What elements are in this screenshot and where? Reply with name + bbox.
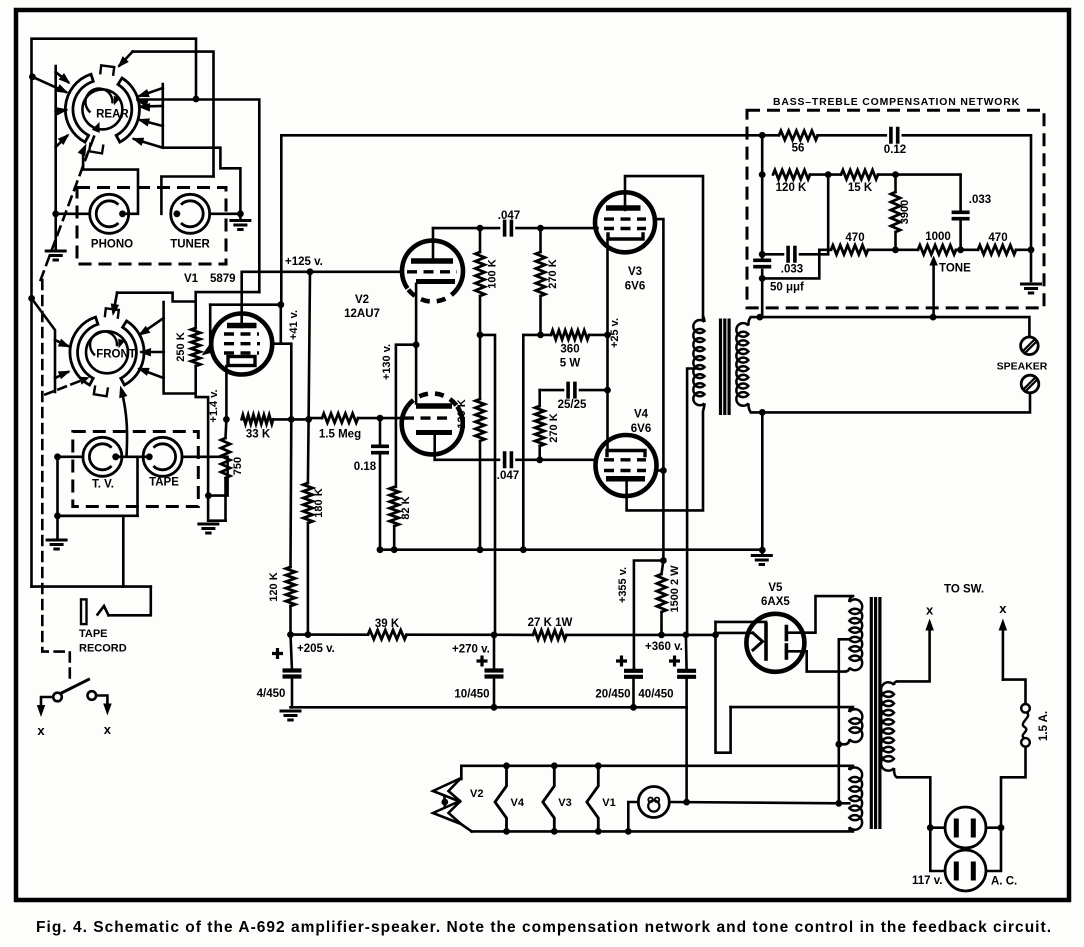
node junction: [305, 631, 312, 638]
svg-text:+355 v.: +355 v.: [617, 567, 629, 603]
wire fuse branch top: [1003, 680, 1026, 704]
svg-text:5 W: 5 W: [560, 358, 581, 370]
wire 0.18 leads: [379, 418, 382, 446]
wire 6.3V center tap: [839, 802, 850, 805]
node junction: [551, 762, 558, 769]
wire 6.3V top lead (heater bus A): [461, 766, 853, 779]
rotary switch REAR contact arc left: [65, 74, 93, 142]
resistor 470 left: [831, 245, 868, 254]
jack TAPE: [143, 437, 182, 476]
wire feedback riser: [279, 305, 282, 344]
resistor 3900: [891, 192, 900, 232]
node junction: [604, 332, 611, 339]
wire V2 lower cathode lead: [433, 436, 436, 460]
wire upper plug right: [986, 826, 1001, 829]
svg-text:39 K: 39 K: [375, 618, 400, 630]
svg-text:V4: V4: [511, 797, 525, 809]
svg-text:6AX5: 6AX5: [761, 596, 790, 608]
node junction: [277, 301, 284, 308]
ground: [45, 251, 67, 260]
dashed box compensation network: [747, 110, 1044, 308]
jack TAPE RECORD sleeve: [81, 599, 87, 624]
node junction: [957, 246, 964, 253]
tube V3 plate: [606, 205, 641, 211]
dashed box TV TAPE: [73, 432, 199, 507]
wire 360 to cathode rail: [589, 334, 608, 337]
tube V2 lower envelope: [402, 407, 463, 455]
svg-text:33 K: 33 K: [246, 429, 271, 441]
resistor 1.5Meg: [322, 414, 358, 423]
tube V5 plate 1: [785, 627, 789, 640]
resistor 82K: [390, 487, 399, 526]
node junction: [237, 210, 244, 217]
wire 360 row: [523, 334, 551, 337]
tube V4 grid rows: [604, 458, 646, 461]
node junction: [54, 512, 61, 519]
svg-text:.047: .047: [498, 210, 520, 222]
wire feedback top bus: [281, 135, 762, 304]
wire upper plug left: [930, 826, 945, 829]
wire comp left rail: [761, 135, 764, 257]
svg-text:+360 v.: +360 v.: [645, 641, 683, 653]
arrow FRONT top: [114, 293, 118, 312]
capacitor 0.18: [371, 446, 389, 452]
wire pilot right: [669, 802, 839, 803]
wire V5 plate1 to HV top: [786, 596, 853, 633]
svg-text:V1: V1: [602, 797, 615, 809]
tube V2 upper envelope: [402, 241, 463, 289]
ground: [1020, 284, 1042, 293]
ground: [751, 556, 773, 565]
wire fuse to plugs right: [987, 747, 1026, 871]
node junction: [112, 453, 119, 460]
svg-text:V5: V5: [768, 582, 783, 594]
svg-text:+1.4 v.: +1.4 v.: [208, 389, 220, 422]
svg-text:V2: V2: [355, 294, 369, 306]
rotary switch FRONT contact arc left: [70, 317, 98, 385]
wire 120K left leads: [289, 419, 292, 567]
svg-text:1.5 Meg: 1.5 Meg: [319, 429, 361, 441]
resistor 270K upper: [536, 252, 545, 296]
tube V3 cathode: [608, 234, 643, 239]
svg-text:PHONO: PHONO: [91, 239, 133, 251]
wire tape record sleeve lead: [122, 516, 125, 587]
tube V5 plate 2: [785, 645, 789, 658]
speaker terminal top: [1021, 337, 1039, 355]
dashed box PHONO TUNER: [77, 188, 226, 265]
resistor 270K lower: [535, 406, 544, 446]
node junction: [930, 314, 937, 321]
arrow REAR right 1: [140, 88, 163, 96]
svg-text:SPEAKER: SPEAKER: [997, 361, 1048, 373]
resistor 360 5W: [551, 330, 589, 339]
node junction: [477, 332, 484, 339]
node junction: [537, 225, 544, 232]
ground: [229, 221, 251, 230]
arrow into REAR right: [136, 99, 149, 107]
wire 56 leads: [762, 134, 779, 137]
svg-text:6V6: 6V6: [625, 281, 645, 293]
transformer output primary: [693, 320, 704, 405]
node junction: [759, 251, 766, 258]
wire 40/450 leads: [685, 635, 688, 671]
wire 120K-15K link: [810, 173, 841, 176]
wire row link1: [868, 249, 918, 252]
wire TUNER ground stub: [239, 214, 242, 219]
svg-text:V2: V2: [470, 788, 483, 800]
resistor 33K: [242, 415, 274, 424]
node junction: [759, 547, 766, 554]
wire wiper to feedback node: [210, 303, 281, 306]
wire tape record top lead: [109, 587, 151, 616]
node junction: [288, 416, 295, 423]
capacitor 0.12: [891, 127, 898, 144]
wire 0.12 to right rail: [903, 135, 1031, 281]
tube V2 lower cathode: [416, 430, 452, 435]
wire bus 205-270: [291, 633, 369, 636]
wire .033 left leads: [762, 253, 783, 256]
wire bus 360: [567, 634, 716, 637]
resistor 470 right: [978, 245, 1016, 254]
wire ground link: [208, 496, 225, 521]
rotary switch REAR inner circle: [82, 89, 122, 129]
node junction +130: [413, 341, 420, 348]
node junction: [660, 467, 667, 474]
wire 25/25 right: [580, 389, 608, 392]
node junction: [595, 762, 602, 769]
wire bus 270: [407, 633, 534, 636]
svg-text:TUNER: TUNER: [170, 239, 210, 251]
node junction: [205, 492, 212, 499]
node junction: [477, 225, 484, 232]
tube V5 cathode bar: [764, 624, 768, 659]
wire pilot left: [628, 802, 638, 831]
svg-text:.033: .033: [781, 264, 803, 276]
wire 1.5Meg to V2 grid: [358, 417, 404, 420]
wire tape record upper lead: [58, 514, 124, 517]
wire 20/450 leads: [632, 668, 635, 671]
node junction: [491, 632, 498, 639]
svg-text:25/25: 25/25: [558, 399, 587, 411]
svg-text:12AU7: 12AU7: [344, 308, 380, 320]
dashed link vertical: [42, 280, 70, 680]
wire TV left: [58, 455, 84, 458]
svg-text:5879: 5879: [210, 273, 236, 285]
svg-text:180 K: 180 K: [313, 488, 325, 517]
wire FRONT top feed: [117, 293, 196, 302]
rotary switch FRONT inner circle: [86, 331, 128, 373]
node junction: [54, 453, 61, 460]
node junction: [305, 416, 312, 423]
tube V2 upper grid: [407, 270, 457, 273]
wire 10/450 leads: [493, 635, 496, 671]
wire 33K to screen node: [273, 418, 309, 421]
tube V1 envelope: [211, 314, 272, 375]
svg-text:1.5 A.: 1.5 A.: [1038, 711, 1050, 741]
wire V4 screen stub: [656, 469, 663, 472]
node junction: [998, 824, 1005, 831]
svg-text:x: x: [926, 603, 934, 618]
wire V5 pin top: [716, 621, 767, 624]
node junction: [503, 828, 510, 835]
resistor 15K: [841, 170, 878, 179]
resistor 120K: [475, 399, 484, 441]
svg-text:6V6: 6V6: [631, 423, 651, 435]
heater V1: [587, 766, 599, 832]
svg-text:120 K: 120 K: [776, 182, 807, 194]
wire 250K bottom to ground: [196, 366, 208, 496]
rotary switch FRONT tab top: [105, 308, 119, 319]
transformer output core: [721, 319, 730, 416]
svg-text:82 K: 82 K: [400, 496, 412, 519]
node junction: [835, 800, 842, 807]
wire left ground branch: [56, 457, 59, 539]
tube V4 envelope: [596, 435, 657, 496]
wire TUNER hot riser: [161, 177, 213, 214]
resistor 120K left: [286, 567, 295, 606]
node junction: [477, 546, 484, 553]
resistor 56: [779, 131, 818, 140]
capacitor 40/450: [677, 669, 696, 673]
rotary switch REAR tab bottom: [89, 143, 103, 154]
wire secondary bottom to speaker: [751, 393, 1030, 413]
svg-text:360: 360: [560, 344, 579, 356]
AC outlet upper: [945, 807, 986, 848]
ground: [280, 711, 302, 720]
node junction: [892, 171, 899, 178]
jack TV: [83, 437, 122, 476]
svg-text:270 K: 270 K: [548, 413, 560, 442]
svg-text:+125 v.: +125 v.: [285, 256, 323, 268]
svg-text:BASS–TREBLE COMPENSATION NETWO: BASS–TREBLE COMPENSATION NETWORK: [773, 97, 1020, 108]
jack PHONO: [90, 194, 129, 233]
wire .047 to V3 grid: [517, 227, 598, 230]
node junction: [825, 171, 832, 178]
wire +125 drop to screen row: [309, 272, 310, 420]
switch contact 1: [53, 693, 62, 702]
pilot lamp: [638, 787, 669, 818]
wire 270K lower leads: [538, 390, 541, 406]
node junction: [892, 246, 899, 253]
node junction: [503, 762, 510, 769]
wire V1 plate lead: [240, 272, 243, 327]
fuse 1.5A: [1021, 704, 1030, 713]
svg-text:RECORD: RECORD: [79, 643, 127, 655]
node junction: [223, 416, 230, 423]
wire 360 ground leg: [522, 335, 525, 550]
tube V2 upper plate: [411, 258, 453, 264]
rotary switch FRONT contact arc right: [121, 321, 144, 385]
tube V2 lower plate: [416, 403, 452, 409]
svg-text:250 K: 250 K: [175, 332, 187, 361]
svg-text:120 K: 120 K: [456, 399, 468, 428]
svg-text:+270 v.: +270 v.: [452, 644, 490, 656]
wire ground row: [58, 514, 138, 517]
heater V4: [495, 766, 507, 832]
capacitor-jack hook TAPE RECORD tip: [98, 606, 109, 615]
svg-text:V3: V3: [558, 797, 571, 809]
arrow FRONT left 1: [55, 340, 68, 346]
node junction: [625, 828, 632, 835]
wire row link2: [956, 249, 978, 252]
node junction: [595, 828, 602, 835]
wire .047 to V4 grid: [517, 458, 597, 461]
node junction: [683, 632, 690, 639]
node junction: [1028, 246, 1035, 253]
wire FRONT wiper curve to jacks: [121, 390, 127, 457]
svg-text:1500 2 W: 1500 2 W: [669, 565, 681, 613]
wire bus corner to V5: [714, 622, 717, 635]
wire +125 bus: [242, 270, 402, 273]
svg-text:FRONT: FRONT: [96, 349, 136, 361]
wire primary bottom to plugs left: [898, 777, 945, 871]
wire secondary top to speaker: [751, 317, 1029, 337]
node junction: [658, 632, 665, 639]
wire 270K upper leads: [539, 228, 542, 252]
jack TUNER: [171, 194, 210, 233]
tube V2 lower grid: [404, 416, 452, 419]
wire 180K leads: [307, 419, 310, 483]
capacitor 25/25: [568, 382, 575, 399]
wire tone row: [819, 249, 831, 252]
ground: [46, 540, 68, 549]
wire 1500 leads: [662, 561, 664, 575]
resistor 27K 1W: [533, 630, 567, 639]
wire ground bus to pilot: [685, 707, 688, 802]
resistor 120K comp: [773, 170, 810, 179]
transformer output secondary: [736, 323, 748, 406]
transformer power HV winding: [849, 599, 862, 670]
tube V3 grid rows: [604, 217, 646, 220]
wiper TONE: [932, 262, 935, 317]
tube V5 envelope: [746, 614, 804, 672]
capacitor .047 bottom: [505, 451, 512, 468]
resistor 180K: [303, 483, 312, 523]
rotary switch FRONT wiper arc arrow: [90, 331, 117, 355]
arrow PHONO to REAR: [78, 144, 87, 157]
wire row right end: [1016, 249, 1031, 252]
switch contact 2: [88, 691, 97, 700]
svg-text:15 K: 15 K: [848, 182, 873, 194]
arrow FRONT right 3: [140, 369, 164, 378]
svg-text:.033: .033: [969, 194, 991, 206]
wire V1 cathode lead: [225, 366, 228, 419]
tube V4 cathode: [607, 451, 645, 456]
wire REAR right contacts bus: [163, 84, 241, 214]
wire top-left box: [32, 39, 197, 587]
svg-text:1000: 1000: [925, 231, 951, 243]
tube V1 grid rows: [224, 332, 259, 335]
arrow FRONT right 2: [142, 351, 164, 354]
arrow REAR right 4: [134, 139, 163, 148]
svg-text:+130 v.: +130 v.: [381, 344, 393, 380]
svg-text:0.18: 0.18: [354, 461, 377, 473]
node junction: [391, 546, 398, 553]
potentiometer 250K: [191, 328, 200, 366]
dashed link FRONT diagonal: [45, 379, 85, 395]
capacitor .047 top: [505, 220, 512, 237]
wire tone row left drop: [764, 250, 819, 279]
wire V5 pin lower: [716, 632, 754, 635]
node junction: [441, 799, 448, 806]
arrow REAR right 3: [140, 120, 163, 126]
rotary switch REAR contact arc right: [116, 78, 139, 142]
node junction: [759, 409, 766, 416]
resistor 1500 2W: [657, 574, 666, 612]
wire ground stub: [761, 550, 764, 554]
wire cathode row: [435, 458, 499, 461]
speaker terminal bottom: [1021, 375, 1039, 393]
wire TUNER right to ground: [210, 213, 241, 216]
tube V2 upper cathode: [416, 279, 455, 284]
svg-text:3900: 3900: [899, 200, 911, 224]
svg-text:117 v.: 117 v.: [912, 875, 943, 887]
svg-text:10/450: 10/450: [454, 689, 489, 701]
tube V3 envelope: [595, 192, 655, 252]
svg-text:100 K: 100 K: [487, 259, 499, 288]
svg-text:4/450: 4/450: [257, 688, 286, 700]
arrow FRONT left 2: [55, 372, 68, 378]
node junction: [307, 268, 314, 275]
node junction: [377, 415, 384, 422]
node junction: [683, 799, 690, 806]
switch arm: [62, 680, 89, 694]
node junction: [520, 546, 527, 553]
wire PHONO left: [56, 213, 90, 216]
wire 50uuf bottom lead: [761, 270, 764, 317]
wire 6.3V bottom lead (heater bus B): [472, 830, 853, 833]
capacitor 20/450: [624, 669, 643, 673]
arrow REAR left 2: [56, 110, 66, 112]
capacitor .033 right: [952, 212, 970, 218]
rotary switch FRONT tab bottom: [94, 385, 108, 396]
wire REAR top feed: [133, 52, 214, 177]
wire primary top to switch arrow: [898, 625, 930, 681]
node junction: [551, 828, 558, 835]
potentiometer 1000: [918, 245, 956, 254]
wire cathode rail V3 V4: [606, 240, 609, 450]
resistor 39K: [368, 630, 407, 639]
wire REAR left terminal bus: [54, 66, 57, 214]
wire .033 right leads: [959, 175, 962, 213]
dashed link REAR-FRONT diagonal: [41, 129, 97, 281]
wire V3 screen lead: [654, 219, 663, 560]
capacitor 10/450: [485, 668, 504, 672]
node junction: [28, 295, 35, 302]
wire REAR right contact to grid line: [138, 100, 260, 293]
node junction: [835, 741, 842, 748]
svg-text:TAPE: TAPE: [149, 477, 179, 489]
arrow REAR top: [120, 52, 133, 66]
wire 1.5Meg left: [309, 417, 322, 420]
wire feedback ground drop: [761, 412, 764, 550]
wire 3900 leads: [894, 175, 897, 192]
wire 5V bottom lead: [839, 743, 845, 746]
svg-text:TAPE: TAPE: [79, 628, 108, 640]
wire pennant link: [443, 796, 446, 807]
wire 15K right: [878, 173, 961, 176]
wire 82K bottom: [393, 526, 396, 550]
svg-text:TO SW.: TO SW.: [944, 584, 984, 596]
svg-text:20/450: 20/450: [595, 689, 630, 701]
svg-text:V1: V1: [184, 273, 199, 285]
wire V2 heater bottom lead: [461, 824, 472, 831]
transformer power 5V winding: [849, 709, 862, 742]
wire V4 plate lead: [627, 413, 703, 510]
resistor 100K: [475, 252, 484, 296]
tube V1 cathode: [228, 357, 255, 366]
wire 120K leads: [479, 335, 482, 399]
